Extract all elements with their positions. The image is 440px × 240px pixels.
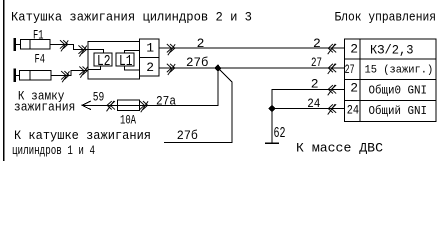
svg-text:Катушка зажигания цилиндров 2: Катушка зажигания цилиндров 2 и 3: [11, 9, 252, 24]
svg-text:27: 27: [311, 55, 322, 70]
svg-text:зажигания: зажигания: [14, 100, 76, 115]
svg-text:L2: L2: [97, 53, 111, 70]
junction node ground: [269, 106, 275, 112]
connector chevron: [79, 46, 87, 57]
connector chevron: [167, 64, 175, 75]
wire branch down: [217, 68, 219, 105]
wire: [125, 50, 140, 53]
junction node 27: [215, 65, 221, 71]
fuse F4 terminal: [14, 70, 16, 81]
connector chevron: [328, 105, 336, 115]
coil pin column: [140, 39, 160, 76]
svg-text:10А: 10А: [120, 113, 136, 128]
svg-text:2: 2: [146, 60, 154, 75]
svg-text:2: 2: [350, 41, 358, 56]
svg-text:24: 24: [307, 96, 320, 111]
svg-text:L1: L1: [119, 53, 133, 70]
connector chevron: [328, 85, 336, 95]
wire 27b stub: [165, 142, 232, 144]
wire: [88, 50, 104, 53]
wire: [231, 82, 233, 143]
frame left border: [3, 0, 5, 161]
connector chevron: [167, 44, 175, 55]
wire: [88, 66, 100, 69]
wire ECU pin2 row3: [272, 88, 345, 90]
ground: [266, 142, 278, 144]
wire 27a: [82, 104, 218, 106]
wire: [51, 74, 71, 76]
svg-text:27: 27: [345, 62, 355, 77]
connector chevron: [60, 41, 68, 52]
connector chevron: [140, 101, 148, 112]
connector chevron: [328, 64, 336, 74]
svg-text:59: 59: [93, 90, 105, 105]
svg-text:Общи0 GNI: Общи0 GNI: [369, 83, 428, 97]
svg-text:27б: 27б: [186, 55, 209, 70]
wire: [71, 71, 88, 76]
svg-text:К катушке зажигания: К катушке зажигания: [14, 128, 151, 143]
wire: [16, 74, 20, 76]
wire pin1 to ECU: [159, 47, 345, 49]
ECU block table: [345, 39, 436, 121]
svg-text:2: 2: [313, 36, 321, 51]
wire: [73, 44, 88, 49]
svg-text:2: 2: [311, 76, 319, 91]
fuse F1 terminal: [14, 39, 16, 50]
svg-text:27а: 27а: [156, 94, 176, 109]
svg-text:1: 1: [146, 40, 154, 55]
wire: [125, 66, 140, 70]
wire ground vertical: [271, 89, 273, 143]
svg-text:КЗ/2,3: КЗ/2,3: [370, 42, 414, 57]
svg-text:15 (зажиг.): 15 (зажиг.): [365, 64, 434, 76]
svg-text:К массе ДВС: К массе ДВС: [296, 140, 383, 155]
wire pin2 to ECU: [159, 67, 345, 69]
connector chevron: [328, 44, 336, 54]
ignition coil module box: [88, 42, 140, 80]
svg-text:24: 24: [347, 102, 359, 117]
connector chevron: [62, 71, 70, 82]
svg-text:F4: F4: [35, 52, 46, 67]
wire ECU pin24 row4: [272, 108, 345, 110]
connector chevron: [107, 101, 115, 111]
svg-text:Блок управления: Блок управления: [335, 9, 437, 24]
arrowhead to ignition lock: [82, 101, 91, 109]
connector chevron: [80, 67, 88, 78]
fuse F1: [20, 40, 50, 50]
svg-text:цилиндров 1 и 4: цилиндров 1 и 4: [12, 143, 95, 158]
svg-text:2: 2: [197, 36, 205, 51]
svg-text:Общий GNI: Общий GNI: [369, 104, 428, 118]
winding L2 box: [94, 53, 112, 66]
svg-text:2: 2: [350, 81, 358, 96]
fuse 10A: [118, 100, 140, 111]
winding L1 box: [116, 53, 134, 66]
svg-text:27б: 27б: [177, 128, 198, 143]
wire: [50, 43, 73, 45]
wire diagonal: [218, 68, 232, 82]
svg-text:62: 62: [274, 125, 286, 142]
fuse F4: [20, 71, 51, 81]
svg-text:F1: F1: [33, 28, 44, 43]
wire: [16, 43, 20, 45]
